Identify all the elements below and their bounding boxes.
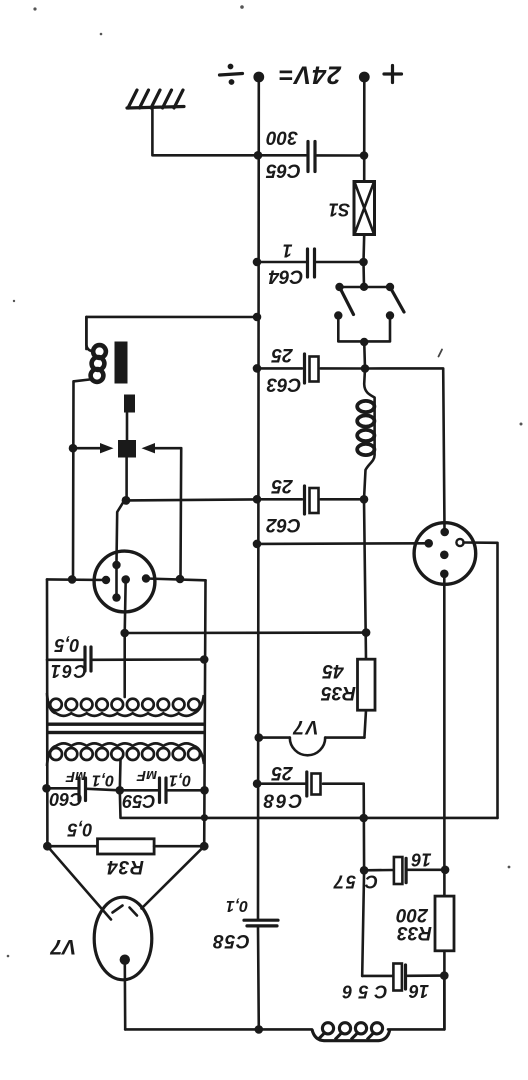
node arrow right	[142, 443, 182, 453]
svg-text:C62: C62	[266, 514, 301, 535]
wire connector bottom down	[443, 575, 446, 896]
inductor L2 (plus bus coil)	[357, 369, 374, 500]
ground	[127, 90, 258, 155]
wire tap to output row	[120, 790, 498, 818]
heater V7 (arc)	[254, 716, 364, 755]
svg-text:25: 25	[271, 475, 294, 496]
svg-text:мF: мF	[136, 767, 157, 784]
svg-text:16: 16	[411, 849, 432, 869]
capacitor C57	[332, 849, 449, 891]
svg-text:0,1: 0,1	[169, 771, 191, 788]
capacitor C61	[47, 635, 209, 681]
svg-text:C63: C63	[266, 373, 301, 394]
capacitor C68	[253, 762, 364, 811]
svg-text:C 57: C 57	[332, 871, 378, 891]
wire bottom row	[125, 976, 444, 1034]
capacitor C65	[254, 126, 369, 180]
svg-text:C59: C59	[122, 791, 155, 811]
capacitor C62	[126, 475, 368, 535]
wire right rail lower	[204, 580, 205, 846]
connector X1	[414, 523, 476, 585]
svg-text:R35: R35	[321, 682, 356, 703]
node plus terminal	[359, 66, 402, 83]
svg-text:0,5: 0,5	[54, 635, 80, 655]
svg-text:25: 25	[271, 344, 294, 365]
resistor R33	[396, 896, 454, 1029]
svg-text:0,1: 0,1	[92, 771, 114, 788]
node output row junctions	[201, 814, 208, 821]
electron tube V7	[47, 846, 204, 1029]
switch S (double pole)	[334, 262, 404, 369]
transformer T1 secondary winding	[47, 743, 204, 766]
electron tube V6 (round, centre)	[94, 551, 155, 612]
wire top-left branch	[86, 313, 261, 349]
wire bus to connector left	[253, 540, 262, 549]
svg-text:1: 1	[282, 240, 292, 260]
node minus terminal	[220, 64, 265, 85]
svg-text:R33: R33	[397, 922, 432, 943]
inductor L3 (bottom coil)	[312, 1023, 390, 1041]
svg-text:C65: C65	[266, 159, 301, 180]
svg-text:мF: мF	[65, 768, 86, 785]
wire left rail upper	[72, 381, 75, 579]
svg-text:S1: S1	[329, 199, 351, 219]
wire left rail lower	[46, 579, 49, 846]
capacitor C59	[120, 767, 209, 811]
capacitor C64	[253, 240, 368, 286]
svg-text:45: 45	[322, 660, 345, 681]
svg-text:V7: V7	[49, 935, 76, 958]
wire main bus	[257, 79, 260, 920]
wire tube right row	[146, 579, 206, 581]
svg-text:C64: C64	[268, 265, 303, 286]
svg-text:C61: C61	[49, 661, 87, 681]
svg-text:C58: C58	[212, 930, 250, 951]
wire grid tap down to primary	[123, 633, 126, 697]
capacitor C60	[42, 768, 124, 809]
transformer L1 adjustable (top-left coil with core)	[74, 317, 136, 458]
wire grid row (tube to R35 bus)	[120, 628, 370, 637]
svg-text:0,5: 0,5	[67, 819, 93, 839]
svg-text:200: 200	[396, 904, 429, 925]
wire main bus lower	[257, 927, 260, 1030]
svg-text:C60: C60	[49, 789, 82, 809]
wire core to grid junction	[117, 458, 131, 563]
transformer T1 primary winding	[47, 693, 204, 716]
svg-text:V7: V7	[291, 716, 318, 737]
svg-text:300: 300	[266, 126, 298, 147]
wire C63 junction to connector top	[365, 368, 445, 530]
wire plus bus top	[363, 79, 366, 182]
svg-text:24V=: 24V=	[278, 60, 342, 88]
wire C68 down rail	[362, 784, 364, 976]
transformer T1 core	[48, 723, 205, 735]
capacitor C63	[253, 344, 370, 395]
wire right rail (arrows to tube row)	[179, 448, 182, 579]
wire tube left row	[47, 575, 106, 584]
svg-text:R34: R34	[106, 856, 144, 877]
svg-text:25: 25	[271, 762, 294, 783]
svg-text:C56: C56	[336, 981, 387, 1001]
wire connector right to down rail	[464, 543, 498, 818]
node arrow left	[69, 443, 114, 453]
resistor R34	[43, 819, 209, 877]
capacitor C58	[212, 897, 278, 951]
wire tube centre down	[125, 580, 126, 634]
wire secondary tap down	[119, 760, 122, 790]
svg-text:0,1: 0,1	[226, 897, 248, 914]
fuse S1	[329, 182, 375, 263]
svg-text:C68: C68	[262, 789, 303, 810]
resistor R35	[321, 499, 375, 737]
svg-text:16: 16	[408, 981, 429, 1001]
capacitor C56	[336, 964, 448, 1002]
